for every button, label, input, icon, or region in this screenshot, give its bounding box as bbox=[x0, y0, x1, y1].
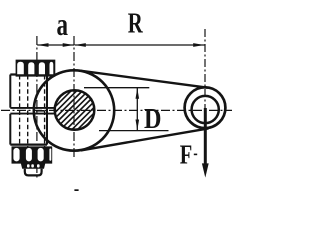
end boss outer circle bbox=[185, 87, 226, 128]
dimension D arrow line bbox=[136, 88, 140, 130]
svg-text:D: D bbox=[144, 104, 162, 135]
node: horizontal centerline of hub and end boss bbox=[1, 109, 232, 111]
bolt hole hidden line bbox=[19, 75, 21, 144]
clamp block outline bbox=[10, 75, 47, 145]
bolt thread end stub bbox=[25, 169, 42, 176]
arm top tangent line bbox=[79, 71, 207, 88]
washer under nut bbox=[21, 163, 46, 169]
svg-text:a: a bbox=[57, 6, 69, 42]
arm bottom tangent line bbox=[81, 128, 209, 150]
node: bolt axis centerline bbox=[36, 36, 38, 180]
bolt hex head bbox=[16, 60, 56, 77]
dimension D upper extension line bbox=[84, 87, 149, 89]
shaft section circle bbox=[55, 90, 95, 130]
bolt shank hidden line right bbox=[44, 75, 46, 147]
svg-text:R: R bbox=[128, 7, 144, 39]
node: end-boss axis centerline bbox=[204, 29, 206, 110]
clamp slot hidden dash bbox=[36, 110, 44, 112]
hex nut bbox=[12, 146, 53, 163]
stray tick below hub centerline bbox=[74, 189, 78, 191]
node: hub axis centerline bbox=[73, 36, 75, 158]
svg-text:F: F bbox=[180, 139, 193, 169]
stray dash right of F bbox=[194, 154, 197, 156]
dimension a line bbox=[37, 43, 74, 47]
hub outer circle bbox=[34, 70, 114, 150]
shaft section hatching bbox=[55, 90, 94, 129]
end boss hole circle bbox=[192, 96, 219, 123]
clamp slot upper line bbox=[10, 107, 55, 109]
dimension D lower extension line bbox=[99, 130, 169, 132]
clamp slot lower line bbox=[10, 113, 55, 115]
dimension R line bbox=[75, 43, 205, 47]
force F arrow bbox=[202, 108, 209, 178]
bolt shank hidden line left bbox=[27, 75, 29, 147]
